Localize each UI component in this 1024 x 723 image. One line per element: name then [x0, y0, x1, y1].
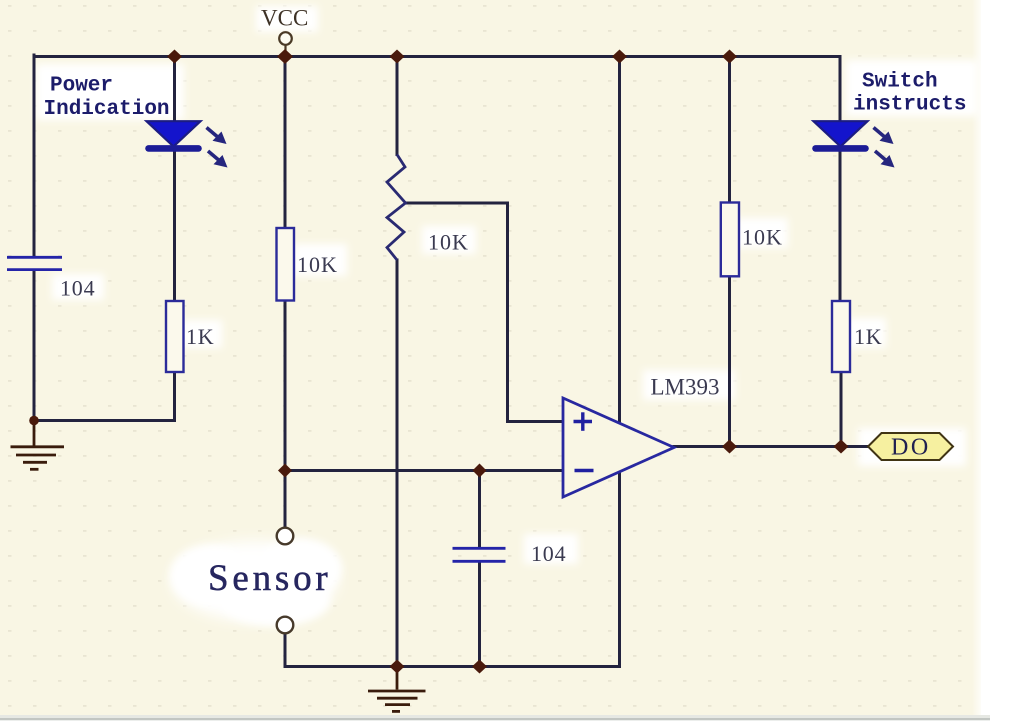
junction at bottom ground — [390, 660, 405, 674]
wire: op-amp output to DO — [674, 445, 869, 448]
junction at VCC — [277, 49, 293, 64]
wire: left branch down to capacitor C1 — [33, 55, 36, 256]
sensor terminal bottom — [277, 617, 294, 634]
wire: LED2 to R5 top — [839, 152, 842, 301]
svg-text:LM393: LM393 — [651, 375, 720, 400]
wire: C2 bottom to bottom rail — [478, 563, 481, 667]
svg-text:1K: 1K — [186, 324, 215, 349]
potentiometer R1 10K zigzag — [387, 155, 406, 261]
wire: R5 bottom to output wire — [840, 372, 843, 447]
svg-text:1K: 1K — [854, 324, 883, 349]
resistor R4 10K — [721, 203, 739, 277]
wire: R3 bottom to sensor junction — [284, 301, 287, 528]
LED D2 — [814, 121, 895, 167]
wire: middle branch from rail to potentiometer — [396, 57, 399, 155]
DO output tag — [868, 433, 953, 460]
bottom gray edge line — [0, 715, 990, 718]
text halos — [36, 6, 978, 564]
resistor R5 1K — [832, 301, 850, 372]
junction at output R5 — [834, 440, 849, 454]
wire: LED1 to R2 top — [173, 152, 176, 301]
junction at C2 top — [473, 464, 487, 478]
op-amp plus marking — [574, 412, 593, 431]
wire: LED2 branch from rail corner — [839, 57, 842, 122]
svg-text:104: 104 — [531, 541, 566, 566]
wire: bottom-left horizontal to R2 1K — [34, 419, 175, 422]
junction at LED1 branch — [167, 50, 182, 64]
svg-text:DO: DO — [891, 435, 931, 461]
wire: right 10K branch from rail — [728, 57, 731, 203]
op-amp minus marking — [575, 469, 594, 472]
junction at output R4 — [722, 440, 737, 454]
junction at C2 bottom — [472, 660, 487, 674]
svg-text:10K: 10K — [297, 252, 338, 277]
wire: R4 bottom to output wire — [728, 276, 731, 446]
svg-text:10K: 10K — [742, 225, 783, 250]
capacitor C2 104 — [453, 548, 506, 561]
svg-text:Power: Power — [50, 75, 113, 98]
sensor terminal top — [277, 528, 294, 545]
wire: inverting input horizontal — [285, 469, 563, 472]
wire: LED1 branch from rail — [173, 57, 176, 122]
ground GND2 — [368, 667, 426, 712]
op-amp U1 LM393 — [563, 398, 674, 497]
wire: pot tap to op-amp plus input — [406, 203, 564, 422]
LED D1 — [147, 121, 228, 167]
junction at inverting input — [278, 464, 292, 478]
svg-text:104: 104 — [60, 276, 95, 301]
svg-text:Switch: Switch — [862, 71, 938, 94]
junction at left ground — [29, 416, 39, 426]
svg-text:instructs: instructs — [853, 94, 966, 117]
svg-text:Indication: Indication — [44, 98, 170, 121]
node: VCC terminal circle — [279, 32, 292, 45]
junction at middle branch — [390, 50, 405, 64]
resistor R2 1K — [166, 301, 184, 372]
wire: C2 top connection — [478, 471, 481, 548]
wire: R3 10K branch from rail — [284, 57, 287, 229]
wire: bottom ground rail — [285, 665, 620, 668]
sensor cloud — [170, 538, 342, 626]
wire: potentiometer bottom down to bottom rail — [396, 260, 399, 667]
wire: sensor bottom terminal down to bottom rail — [284, 634, 287, 667]
junction at op-amp supply — [612, 50, 627, 64]
svg-text:Sensor: Sensor — [208, 558, 332, 599]
wire: C1 bottom to ground junction — [33, 271, 36, 421]
wire: top VCC rail — [34, 55, 840, 58]
wire: op-amp supply vertical — [618, 57, 621, 667]
ground GND1 — [11, 421, 65, 470]
capacitor C1 104 — [7, 257, 62, 269]
svg-text:VCC: VCC — [261, 6, 308, 31]
svg-text:10K: 10K — [428, 230, 469, 255]
resistor R3 10K — [277, 228, 295, 301]
junction at right 10K — [722, 50, 737, 64]
wire: R2 bottom to corner — [173, 372, 176, 421]
